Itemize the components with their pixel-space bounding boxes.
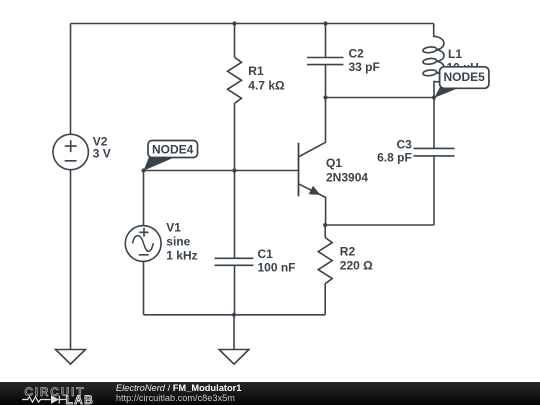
logo wire + diode <box>22 395 66 403</box>
wire collector <box>299 98 325 157</box>
svg-text:4.7 kΩ: 4.7 kΩ <box>248 79 285 93</box>
svg-text:100 nF: 100 nF <box>258 261 296 275</box>
wire R2 top <box>324 225 326 238</box>
wire V1 bottom <box>143 261 145 314</box>
svg-text:1 kHz: 1 kHz <box>166 249 197 263</box>
transistor Q1 emitter <box>299 184 325 225</box>
node mid C2 junction <box>323 95 327 99</box>
wire C3 bottom vertical <box>433 156 435 225</box>
node NODE4 flag <box>144 141 198 171</box>
svg-text:6.8 pF: 6.8 pF <box>377 150 412 164</box>
resistor R2 <box>318 238 332 284</box>
wire V2 bottom <box>70 170 72 349</box>
wire C3 top vertical <box>433 98 435 149</box>
svg-text:Q1: Q1 <box>326 156 342 170</box>
capacitor C3 <box>414 148 455 156</box>
node base/R1 junction <box>232 168 236 172</box>
svg-text:LAB: LAB <box>66 393 95 405</box>
wire base <box>144 170 298 172</box>
wire R2 bottom <box>324 284 326 315</box>
wire ground drop <box>233 315 235 350</box>
wire C2 top <box>325 24 327 58</box>
svg-text:NODE5: NODE5 <box>444 70 486 84</box>
node top R1 junction <box>232 21 236 25</box>
footer text line 1 <box>116 383 242 393</box>
svg-text:L1: L1 <box>448 47 462 61</box>
capacitor C2 <box>307 58 344 65</box>
wire R1 top <box>234 24 236 58</box>
transistor Q1 base bar <box>298 143 300 197</box>
svg-text:sine: sine <box>166 235 190 249</box>
inductor L1 <box>423 24 444 98</box>
ground (center) <box>219 350 249 365</box>
node NODE5 junction <box>432 95 436 99</box>
wire top horizontal <box>71 23 434 25</box>
svg-text:C2: C2 <box>349 47 365 61</box>
svg-text:NODE4: NODE4 <box>152 143 194 157</box>
svg-text:C1: C1 <box>258 247 274 261</box>
node NODE5 flag <box>434 67 489 98</box>
node bottom ground junction <box>232 313 236 317</box>
voltage source V2 <box>53 134 88 169</box>
wire V1 top <box>143 171 145 226</box>
svg-text:3 V: 3 V <box>93 147 111 161</box>
emitter arrow <box>309 186 321 195</box>
svg-text:V1: V1 <box>166 221 181 235</box>
wire C1 bottom <box>234 265 236 315</box>
resistor R1 <box>228 57 242 103</box>
footer bar <box>0 382 540 405</box>
logo CIRCUIT <box>0 382 100 405</box>
wire bottom horizontal <box>144 314 326 316</box>
svg-text:2N3904: 2N3904 <box>326 171 368 185</box>
node NODE4 junction <box>141 168 145 172</box>
node top C2 junction <box>323 21 327 25</box>
svg-text:R1: R1 <box>248 64 264 78</box>
wire V2 top <box>70 24 72 135</box>
ground (left) <box>56 350 86 365</box>
capacitor C1 <box>215 258 254 265</box>
wire C2 bottom <box>325 65 327 98</box>
svg-text:33 pF: 33 pF <box>349 60 380 74</box>
svg-text:220 Ω: 220 Ω <box>340 259 373 273</box>
svg-text:R2: R2 <box>340 245 356 259</box>
footer text line 2 <box>116 393 235 403</box>
wire mid horizontal <box>326 97 435 99</box>
voltage source V1 (sine) <box>125 226 161 262</box>
wire emitter row <box>325 224 434 226</box>
node emitter junction <box>323 223 327 227</box>
wire R1 to C1 <box>234 103 236 258</box>
